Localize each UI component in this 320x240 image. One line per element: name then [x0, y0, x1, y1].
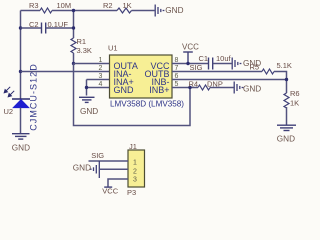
wire top row left [21, 10, 41, 12]
resistor R2 [117, 8, 132, 13]
node A vertical wire (left) [20, 11, 22, 99]
wire R5 to corner [274, 72, 287, 94]
capacitor C2 [42, 23, 46, 34]
svg-text:R3: R3 [29, 1, 39, 10]
junction dot B-top [72, 9, 75, 12]
wire pin3-pin4 gnd drop [86, 80, 88, 96]
wire pin1 row [74, 63, 110, 65]
photodiode arrows [4, 87, 14, 97]
svg-text:2: 2 [133, 169, 137, 176]
wire pin8 row [172, 63, 209, 65]
svg-text:5.1K: 5.1K [277, 61, 292, 70]
svg-text:2: 2 [99, 65, 103, 72]
junction dot B-C2 [72, 26, 75, 29]
svg-text:VCC: VCC [102, 187, 118, 196]
svg-text:R1: R1 [77, 37, 87, 46]
svg-text:1: 1 [99, 57, 103, 64]
svg-text:J1: J1 [129, 142, 137, 151]
wire pin7 row [172, 71, 262, 73]
svg-text:CJMCU-S12D: CJMCU-S12D [29, 63, 39, 131]
wire pin2 row [21, 71, 110, 73]
wire diode to gnd [20, 108, 22, 133]
node B vertical wire [73, 11, 75, 39]
ground U2 [12, 134, 30, 139]
svg-text:1K: 1K [290, 99, 299, 108]
wire C2 row left [21, 27, 42, 29]
junction dot pin8-VCC [186, 62, 189, 65]
wire SIG row J1 [89, 160, 129, 162]
op-amp U1 [110, 55, 173, 98]
wire pin5 row [172, 87, 198, 89]
ground C1 (sideways) [232, 58, 241, 70]
junction dot A-C2 [19, 26, 22, 29]
svg-text:SIG: SIG [190, 63, 203, 72]
junction dot pin5-loop [188, 86, 191, 89]
wire VCC row J1 [108, 179, 128, 187]
svg-text:R5: R5 [250, 62, 260, 71]
power VCC J1 (down) [104, 186, 112, 188]
wire GND row J1 [99, 168, 128, 170]
svg-text:LMV358D (LMV358): LMV358D (LMV358) [110, 99, 184, 109]
resistor R3 [40, 8, 52, 13]
wire R1 bottom [73, 53, 75, 64]
wire loop OUTA to INB+ [74, 64, 191, 126]
svg-text:3.3K: 3.3K [77, 46, 92, 55]
junction dot R1-pin1 [72, 62, 75, 65]
svg-text:3: 3 [99, 73, 103, 80]
capacitor C1 [209, 58, 213, 70]
svg-text:SIG: SIG [91, 151, 104, 160]
svg-text:GND: GND [165, 6, 183, 15]
wire pin6 row [172, 79, 287, 81]
photodiode U2 [12, 99, 30, 108]
wire C2 row right [46, 27, 74, 29]
svg-text:10uf: 10uf [216, 54, 232, 63]
power VCC top [183, 52, 193, 64]
svg-text:GND: GND [12, 144, 30, 153]
wire C1 to gnd [213, 63, 232, 65]
resistor R1 [71, 38, 76, 53]
ground R4 (sideways) [234, 82, 243, 94]
svg-text:10M: 10M [57, 1, 72, 10]
svg-text:GND: GND [80, 107, 98, 116]
junction dot A-pin2 [19, 70, 22, 73]
svg-text:C2: C2 [29, 20, 39, 29]
ground R6 [277, 125, 296, 130]
svg-text:U2: U2 [4, 107, 14, 116]
resistor R5 [262, 69, 274, 74]
junction dot pin6-R5R6 [285, 78, 288, 81]
svg-text:1: 1 [133, 160, 137, 167]
svg-text:C1: C1 [199, 54, 209, 63]
junction dot pin4-gnd [85, 86, 88, 89]
svg-text:4: 4 [99, 81, 103, 88]
wire pin3 row [87, 79, 110, 81]
svg-text:GND: GND [277, 135, 295, 144]
wire top row right [132, 10, 155, 12]
wire pin4 row [87, 87, 110, 89]
svg-text:U1: U1 [108, 44, 118, 53]
svg-text:R2: R2 [103, 1, 113, 10]
resistor R6 [284, 93, 289, 108]
svg-text:1K: 1K [123, 1, 132, 10]
svg-text:VCC: VCC [182, 43, 199, 52]
ground top (sideways) [155, 5, 164, 17]
svg-text:R4: R4 [189, 79, 199, 88]
ground J1 (sideways left) [90, 161, 99, 178]
wire R4 to gnd [210, 87, 234, 89]
svg-text:R6: R6 [290, 89, 300, 98]
ground below chip [79, 97, 95, 102]
wire top row middle [52, 10, 117, 12]
svg-text:P3: P3 [127, 188, 136, 197]
wire R6 bottom [286, 107, 288, 125]
svg-text:INB+: INB+ [149, 85, 169, 95]
svg-text:3: 3 [133, 177, 137, 184]
resistor R4 [198, 85, 210, 90]
svg-text:GND: GND [73, 164, 91, 173]
connector J1 [128, 150, 145, 187]
svg-text:GND: GND [114, 85, 135, 95]
svg-text:GND: GND [243, 84, 261, 93]
